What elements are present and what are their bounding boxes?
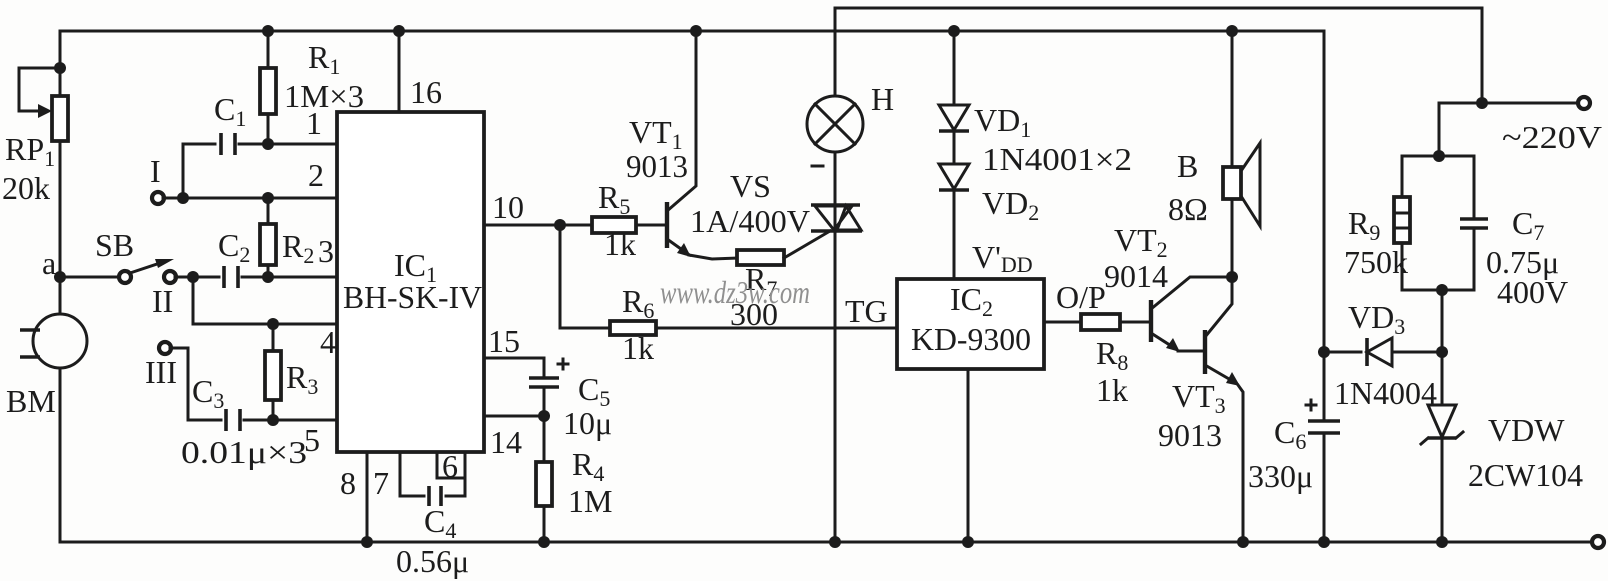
svg-text:1A/400V: 1A/400V <box>690 203 810 239</box>
wire SB to C2 <box>175 276 219 279</box>
capacitor C1 <box>221 133 235 155</box>
diode VD2 <box>939 164 969 190</box>
svg-text:2CW104: 2CW104 <box>1468 457 1583 493</box>
node R4 ground <box>538 536 550 548</box>
wire IC2 O/P <box>1044 321 1081 324</box>
svg-text:1N4004: 1N4004 <box>1334 375 1437 411</box>
wire a to SB <box>64 276 120 279</box>
node VDW ground <box>1436 536 1448 548</box>
svg-text:9014: 9014 <box>1104 258 1168 294</box>
wire IC1 pin16 <box>398 31 401 112</box>
wire C4 loop left <box>400 452 424 496</box>
wire R5 to VT1 base <box>636 224 665 227</box>
svg-text:0.01μ×3: 0.01μ×3 <box>181 434 307 470</box>
wire R6 branch <box>560 225 610 328</box>
terminal 220V bottom <box>1592 536 1604 548</box>
terminal 220V top <box>1578 97 1590 109</box>
resistor R8 <box>1081 314 1120 330</box>
wire III to C3 <box>170 348 221 420</box>
svg-text:400V: 400V <box>1497 274 1568 310</box>
node RP1 wiper tap <box>54 62 66 74</box>
svg-text:1M×3: 1M×3 <box>284 78 364 114</box>
transistor VT1 <box>667 31 737 259</box>
node R1 top <box>262 25 274 37</box>
resistor R9 <box>1394 156 1410 290</box>
svg-text:O/P: O/P <box>1056 279 1106 315</box>
svg-text:1: 1 <box>306 105 322 141</box>
node II junction <box>187 271 199 283</box>
node VD3 right junction <box>1436 346 1448 358</box>
wire VD3 left <box>1324 351 1361 354</box>
node speaker top <box>1226 25 1238 37</box>
node IC2 ground <box>962 536 974 548</box>
wire AC terminal branch <box>1482 102 1578 105</box>
svg-text:BH-SK-IV: BH-SK-IV <box>343 279 482 315</box>
svg-text:1k: 1k <box>1096 372 1128 408</box>
svg-text:330μ: 330μ <box>1248 458 1313 494</box>
svg-text:VDW: VDW <box>1488 412 1565 448</box>
svg-text:SB: SB <box>95 227 134 263</box>
svg-text:VS: VS <box>730 168 771 204</box>
resistor R5 <box>592 217 636 233</box>
wire C1 branch <box>183 144 215 198</box>
node VS ground <box>829 536 841 548</box>
svg-text:BM: BM <box>6 383 56 419</box>
svg-text:www.dz3w.com: www.dz3w.com <box>660 274 810 310</box>
node R2 bottom <box>262 271 274 283</box>
svg-text:9013: 9013 <box>626 148 688 184</box>
node pin7 ground <box>361 536 373 548</box>
wire RC to VD3 <box>1441 290 1444 352</box>
wire IC1 pin14 <box>484 415 544 418</box>
node VD top <box>948 25 960 37</box>
switch SB <box>119 259 176 283</box>
wire RC top bar <box>1402 155 1474 158</box>
resistor R4 <box>536 416 552 542</box>
svg-text:3: 3 <box>318 233 334 269</box>
node AC junction <box>1476 97 1488 109</box>
diode VD3 <box>1367 338 1392 366</box>
wire R8 to VT2 base <box>1120 321 1149 324</box>
transistor VT2 <box>1151 277 1232 352</box>
wire lamp to VS <box>834 152 837 205</box>
svg-text:10μ: 10μ <box>563 405 612 441</box>
svg-text:1N4001×2: 1N4001×2 <box>982 141 1132 177</box>
svg-text:7: 7 <box>373 465 389 501</box>
svg-text:5: 5 <box>304 422 320 458</box>
svg-text:1k: 1k <box>622 330 654 366</box>
wire IC2 to ground <box>967 369 970 542</box>
wire C4 loop right <box>446 452 465 496</box>
wire speaker bottom <box>1231 199 1234 277</box>
capacitor C3 <box>226 409 240 431</box>
terminal I <box>152 192 164 204</box>
node pin10 branch <box>554 219 566 231</box>
lamp H <box>807 96 863 152</box>
svg-text:I: I <box>150 153 161 189</box>
svg-text:KD-9300: KD-9300 <box>911 321 1031 357</box>
wire C3 to IC1 pin5 <box>244 419 337 422</box>
svg-text:14: 14 <box>490 424 522 460</box>
wire C2 to IC1 pin3 <box>242 276 337 279</box>
wire VD2 to IC2 <box>953 190 956 279</box>
wire R7 to VS gate <box>784 231 830 258</box>
resistor R3 <box>265 324 281 420</box>
capacitor C4 <box>429 486 441 506</box>
node VT collector junction <box>1226 271 1238 283</box>
wire to RC snubber <box>1439 103 1482 156</box>
svg-text:8: 8 <box>340 465 356 501</box>
wire speaker top <box>1231 31 1234 167</box>
node VT3 emitter ground <box>1237 536 1249 548</box>
wire AC top rail <box>835 8 1482 103</box>
svg-text:B: B <box>1177 148 1198 184</box>
svg-text:10: 10 <box>492 189 524 225</box>
svg-text:20k: 20k <box>2 170 50 206</box>
svg-text:H: H <box>871 81 894 117</box>
svg-text:a: a <box>42 245 56 281</box>
node R1 bottom <box>262 138 274 150</box>
node R2 top <box>262 192 274 204</box>
op IC2 box <box>897 279 1044 369</box>
resistor R2 <box>260 198 276 277</box>
svg-text:8Ω: 8Ω <box>1168 191 1208 227</box>
svg-text:II: II <box>152 283 173 319</box>
svg-text:TG: TG <box>845 293 888 329</box>
wire R6 to IC2 TG <box>656 327 897 330</box>
capacitor C5 <box>529 359 568 416</box>
zener VDW <box>1421 352 1463 542</box>
wire bottom common rail <box>60 368 1592 542</box>
node R3 top <box>267 318 279 330</box>
pin 6 box <box>437 452 465 478</box>
capacitor C6 <box>1306 400 1340 542</box>
svg-text:1k: 1k <box>604 226 636 262</box>
speaker B <box>1223 143 1260 226</box>
wire C1 to IC1 pin1 <box>239 143 337 146</box>
capacitor C2 <box>224 266 238 288</box>
wire RC bottom bar <box>1402 289 1474 292</box>
svg-text:0.56μ: 0.56μ <box>396 543 469 579</box>
triac VS <box>811 205 862 231</box>
wire I to IC1 pin2 <box>163 197 337 200</box>
wire IC1 pin7/8 to ground <box>366 452 369 542</box>
wire IC1 pin10 row <box>484 224 592 227</box>
microphone BM <box>20 314 87 368</box>
resistor R1 <box>260 31 276 144</box>
wire left column RP1 to BM <box>59 141 62 314</box>
resistor R7 <box>737 250 784 265</box>
capacitor C7 <box>1460 156 1488 290</box>
wire VD1 to VD2 <box>953 131 956 164</box>
transistor VT3 <box>1205 277 1243 542</box>
node R3 bottom <box>267 414 279 426</box>
svg-text:4: 4 <box>320 324 336 360</box>
svg-text:1M: 1M <box>568 483 612 519</box>
minus tick <box>812 165 823 168</box>
node C6 ground <box>1318 536 1330 548</box>
resistor R6 <box>610 321 656 335</box>
wire VS to ground rail <box>834 231 837 542</box>
svg-text:750k: 750k <box>1344 244 1408 280</box>
wire VD column top <box>953 31 956 105</box>
svg-text:2: 2 <box>308 157 324 193</box>
node C5 R4 junction <box>538 410 550 422</box>
node VT1 collector top <box>690 25 702 37</box>
wire IC1 pin15 <box>484 358 544 376</box>
op IC1 box <box>337 112 484 452</box>
node C1 branch <box>177 192 189 204</box>
node a <box>54 271 66 283</box>
wire VD3 right <box>1392 351 1442 354</box>
terminal III <box>159 342 171 354</box>
node VD3 left junction <box>1318 346 1330 358</box>
svg-text:~220V: ~220V <box>1502 119 1602 155</box>
svg-text:III: III <box>145 354 177 390</box>
svg-text:6: 6 <box>442 448 458 484</box>
wire VDD top rail <box>60 31 1324 421</box>
svg-text:15: 15 <box>488 323 520 359</box>
diode VD1 <box>939 105 969 131</box>
potentiometer RP1 <box>19 68 68 141</box>
node pin16 top <box>393 25 405 37</box>
svg-text:9013: 9013 <box>1158 417 1222 453</box>
node RC top <box>1433 150 1445 162</box>
svg-text:16: 16 <box>410 74 442 110</box>
node RC bottom <box>1436 284 1448 296</box>
wire pin4 row <box>193 277 337 324</box>
